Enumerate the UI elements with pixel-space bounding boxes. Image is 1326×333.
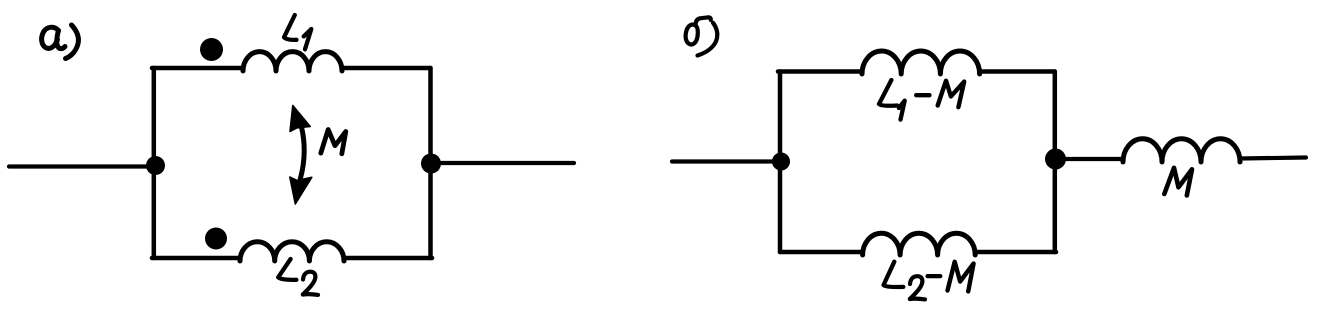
inductor L2-M bbox=[863, 233, 976, 255]
node left b bbox=[772, 153, 790, 171]
wire left lead b bbox=[672, 159, 776, 163]
label L2-M bbox=[884, 262, 974, 300]
wire top right b bbox=[980, 69, 1055, 74]
inductor M series bbox=[1123, 139, 1240, 162]
inductor L2 bbox=[240, 242, 344, 261]
label b) bbox=[686, 17, 718, 55]
node right b bbox=[1045, 149, 1066, 170]
node right a bbox=[421, 154, 441, 174]
label L1-M bbox=[879, 80, 964, 120]
wire right vertical b bbox=[1053, 72, 1058, 253]
label L1 bbox=[284, 15, 311, 49]
label a) bbox=[42, 25, 79, 59]
inductor L1-M bbox=[862, 51, 980, 74]
wire right vertical a bbox=[428, 68, 433, 258]
polarity dot bottom a bbox=[205, 228, 227, 250]
label M mutual bbox=[321, 130, 346, 154]
mutual coupling arrow M bbox=[300, 124, 304, 180]
wire bottom left b bbox=[780, 250, 863, 255]
wire left vertical b bbox=[778, 72, 783, 253]
wire bottom right b bbox=[975, 250, 1056, 255]
wire left vertical a bbox=[152, 68, 157, 258]
wire top right a bbox=[342, 66, 431, 71]
wire left lead a bbox=[9, 164, 150, 168]
label L2 bbox=[278, 259, 318, 295]
label M series bbox=[1164, 168, 1192, 196]
wire bottom left a bbox=[152, 256, 240, 261]
polarity dot top a bbox=[200, 38, 223, 61]
wire top left a bbox=[152, 66, 243, 71]
wire node to M bbox=[1056, 157, 1124, 161]
wire bottom right a bbox=[344, 256, 432, 261]
wire right lead b bbox=[1240, 158, 1306, 159]
wire top left b bbox=[778, 69, 862, 74]
wire right lead a bbox=[431, 161, 574, 165]
node left a bbox=[146, 156, 165, 175]
inductor L1 bbox=[243, 52, 342, 71]
